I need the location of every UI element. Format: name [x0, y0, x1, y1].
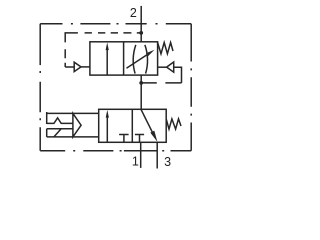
pilot triangle Z1 (left, pointing right)	[74, 62, 81, 71]
wire triangle to valve V1	[81, 66, 90, 68]
valve V2 left box flow arrow	[106, 117, 108, 142]
wire pilot loop right side	[174, 67, 182, 83]
valve V1 body (2/2-way throttle valve)	[90, 42, 158, 75]
valve V2 right box diagonal flow path 2->3	[141, 110, 154, 137]
spring F2 (valve V2 right)	[166, 119, 181, 129]
pilot line (dashed) back to node B	[141, 82, 181, 84]
enclosure (dash-dot assembly border) top edge	[40, 23, 191, 25]
wire V1 right pilot stub	[158, 66, 167, 68]
wire between valves	[140, 75, 142, 109]
spring F1 (valve V1 right)	[158, 43, 173, 54]
wire port 1	[140, 142, 142, 168]
actuator over-center bump line	[47, 118, 73, 124]
manual actuator: push-pull button cap	[46, 112, 48, 124]
actuator bottom line	[47, 136, 99, 138]
svg-text:1: 1	[132, 155, 139, 169]
actuator detent box	[47, 129, 73, 137]
pilot line (dashed) from node A to left pilot	[65, 33, 141, 67]
node B junction dot	[139, 81, 143, 85]
enclosure right edge	[190, 24, 192, 151]
node A junction dot	[139, 31, 143, 35]
valve V1 position divider	[123, 42, 125, 75]
valve V2 position divider	[131, 109, 133, 142]
actuator top line	[47, 112, 99, 114]
svg-text:2: 2	[130, 6, 137, 20]
wire left pilot stub	[65, 66, 75, 68]
actuator detent diagonal	[54, 129, 61, 137]
pilot triangle Z2 (right, pointing left)	[167, 62, 174, 72]
wire port 3	[156, 142, 158, 168]
enclosure bottom edge	[40, 150, 191, 152]
blocked port T symbol (right box, port 1)	[135, 135, 144, 143]
wire port 2 vertical line	[140, 6, 142, 42]
actuator plunger triangle	[73, 113, 81, 136]
svg-text:3: 3	[164, 155, 171, 169]
throttle adjustment arrow (diagonal)	[127, 53, 150, 68]
throttle arcs in V1 right box	[133, 45, 136, 74]
enclosure left edge	[39, 24, 41, 151]
blocked port T symbol (left box)	[119, 135, 129, 143]
valve V1 left box flow arrow	[106, 49, 108, 75]
valve V2 body (3/2-way valve)	[99, 109, 167, 142]
